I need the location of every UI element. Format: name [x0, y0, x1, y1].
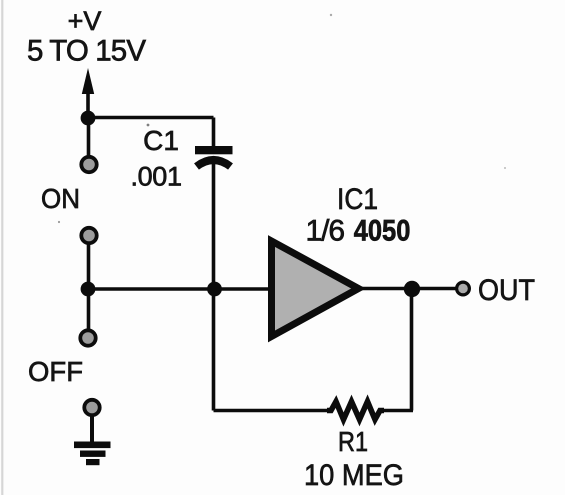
switch contact ON (upper circle): [81, 157, 96, 172]
resistor R1: [327, 402, 384, 420]
wire capacitor top drop: [212, 118, 216, 147]
op-amp buffer IC1 (1/6 4050 triangle): [272, 241, 359, 337]
wire feedback right vertical: [410, 289, 414, 411]
node A junction dot (top): [81, 111, 96, 126]
svg-text:4050: 4050: [354, 215, 411, 248]
svg-text:5 TO 15V: 5 TO 15V: [27, 35, 146, 68]
power arrow (+V): [82, 68, 94, 119]
capacitor C1: [195, 146, 233, 167]
switch contact OFF (circle 4): [84, 400, 99, 415]
svg-text:R1: R1: [338, 426, 368, 457]
wire ground stem: [90, 414, 94, 444]
ground: [74, 442, 111, 466]
wire input horizontal: [88, 287, 272, 291]
svg-text:+V: +V: [68, 6, 102, 36]
wire bottom rail right: [382, 409, 413, 413]
node D junction dot (output): [404, 281, 420, 297]
node B junction dot (switch pole): [81, 282, 96, 297]
wire switch pole vertical: [87, 242, 91, 332]
svg-text:OUT: OUT: [478, 274, 535, 307]
svg-text:IC1: IC1: [337, 183, 378, 216]
switch contact common upper (circle 2): [81, 228, 96, 243]
switch contact common lower (circle 3): [80, 330, 95, 345]
wire capacitor down to bottom rail: [212, 160, 216, 411]
svg-text:OFF: OFF: [28, 356, 83, 387]
svg-text:10 MEG: 10 MEG: [304, 459, 404, 492]
wire bottom rail left: [214, 409, 330, 413]
OUT terminal: [457, 282, 470, 295]
svg-text:1/6: 1/6: [306, 215, 346, 248]
scan specks (decorative noise to match photocopy): [147, 124, 150, 127]
svg-text:.001: .001: [131, 162, 183, 192]
svg-text:C1: C1: [143, 125, 179, 156]
svg-text:ON: ON: [41, 183, 80, 214]
node C junction dot (cap line crossing): [207, 282, 222, 297]
wire switch upper segment: [87, 118, 91, 158]
wire output horizontal: [360, 287, 457, 291]
scan edge artifact: [1, 0, 3, 495]
wire top horizontal: [88, 116, 214, 120]
